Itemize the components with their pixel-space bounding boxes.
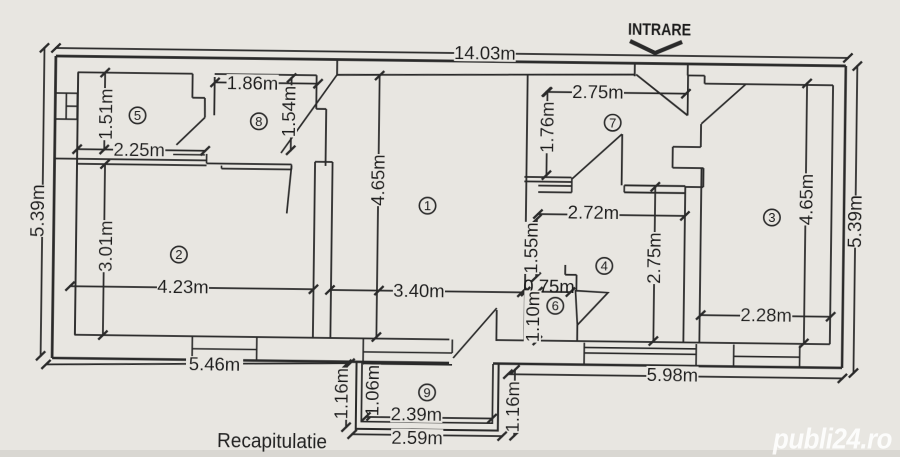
room 5 right step (191, 74, 193, 98)
dimension 3.01m (room 2) (103, 163, 105, 336)
outer wall top (56, 56, 846, 66)
dimension 4.65m (room 3) (804, 82, 807, 344)
room 5 door leaf (176, 117, 205, 145)
top wall inner face right of entrance (688, 74, 705, 76)
door room7-room4 leaf (572, 133, 622, 179)
svg-text:4.65m: 4.65m (796, 174, 818, 226)
dimension 2.39m (room 9) (365, 417, 493, 419)
svg-text:4.23m: 4.23m (157, 276, 209, 298)
room label 3 (circled) (764, 209, 781, 226)
svg-text:3.01m: 3.01m (95, 220, 117, 272)
bottom wall inner face (74, 335, 449, 340)
dimension 0.75m (room 6) (525, 291, 572, 294)
wall between rooms 1 and 2 (313, 162, 315, 338)
svg-text:1.76m: 1.76m (536, 101, 558, 153)
entrance right jamb (687, 64, 689, 75)
room label 6 (circled) (547, 297, 564, 314)
room 3 top wall inner face (705, 84, 833, 86)
svg-text:INTRARE: INTRARE (628, 20, 691, 40)
room 8 right wall with step (315, 75, 317, 109)
dimension 2.72m (room 4) (537, 214, 686, 216)
svg-text:1.86m: 1.86m (227, 72, 279, 94)
svg-text:2.59m: 2.59m (391, 427, 443, 449)
dimension 3.40m (room 1) (329, 290, 523, 292)
svg-text:1.51m: 1.51m (95, 88, 117, 140)
wall junction rooms 7/4/3 (700, 124, 702, 147)
room 1 door leaf (from hall) (281, 74, 337, 154)
svg-text:publi24.ro: publi24.ro (772, 424, 892, 456)
svg-text:1.16m: 1.16m (502, 381, 524, 433)
svg-text:9: 9 (423, 385, 430, 400)
shaft box on left wall (55, 93, 77, 119)
svg-text:14.03m: 14.03m (454, 42, 516, 64)
hall band upper (wall under room 5) (55, 158, 207, 160)
top wall step at x=337 (336, 61, 338, 75)
entrance arrow (V) (630, 41, 682, 53)
svg-text:1.06m: 1.06m (362, 365, 384, 417)
svg-text:2.28m: 2.28m (740, 304, 792, 326)
room 7 bottom stub wall (524, 176, 571, 179)
wall between room 1 and rooms 7/4/6 (524, 74, 527, 340)
room 3 right wall inner face (830, 85, 833, 344)
room label 1 (circled) (419, 197, 436, 214)
dimension 1.16m (room 9 right) (513, 369, 516, 437)
outer wall right (842, 66, 846, 368)
svg-text:8: 8 (255, 114, 262, 129)
entrance door leaf (636, 74, 689, 115)
room 4 top wall west part (538, 185, 571, 187)
hall band lower (wall under room 8) (207, 163, 292, 164)
svg-text:3.40m: 3.40m (393, 280, 445, 302)
svg-text:1.10m: 1.10m (522, 291, 544, 343)
wall between rooms 4 and 3 (683, 187, 685, 342)
dimension 1.51m (room 5) (103, 72, 106, 151)
dimension 5.39m (right) (853, 65, 857, 374)
svg-text:5.98m: 5.98m (647, 364, 699, 386)
room 5 top wall (78, 72, 193, 73)
svg-text:4.65m: 4.65m (367, 154, 389, 206)
svg-text:5.39m: 5.39m (28, 184, 50, 237)
dimension 1.86m (room 8) (214, 82, 319, 83)
dimension 1.76m (room 7) (546, 91, 547, 176)
svg-text:1.55m: 1.55m (520, 222, 542, 274)
svg-text:1.16m: 1.16m (331, 368, 353, 420)
door to room 9: jamb (495, 310, 497, 341)
svg-text:7: 7 (609, 115, 616, 130)
dimension 5.98m (bottom right) (507, 374, 843, 378)
outer wall left (52, 56, 56, 358)
svg-text:2.75m: 2.75m (643, 232, 665, 284)
window below room 4 (584, 347, 696, 348)
room 6 door jamb stub (576, 325, 578, 341)
svg-text:1.54m: 1.54m (278, 86, 300, 138)
svg-text:2.75m: 2.75m (572, 81, 624, 103)
svg-text:1: 1 (424, 198, 431, 213)
outer wall bottom (door gap for room 9) (52, 358, 449, 363)
room 4 top wall east part (624, 184, 685, 187)
dimension 5.39m (left) (41, 47, 45, 357)
dimension 4.65m (room 1) (376, 75, 379, 338)
room 9 outer wall (356, 362, 499, 430)
svg-text:4: 4 (601, 258, 608, 273)
dimension 2.75m (room 7) (545, 92, 686, 94)
dimension 1.06m (room 9) (370, 366, 373, 417)
room 2 door leaf (287, 166, 292, 214)
dimension 5.46m (bottom left) (46, 359, 350, 368)
dimension 1.54m (room 8) (290, 77, 293, 151)
room 6 right wall with step (564, 265, 566, 275)
svg-text:5.39m: 5.39m (845, 195, 867, 248)
svg-text:2.39m: 2.39m (391, 403, 443, 425)
left interior wall face (75, 72, 78, 334)
door room7-room4 jamb (621, 134, 624, 185)
window below room 3 (733, 345, 735, 368)
window below room 1 (363, 352, 452, 353)
dimension 2.75m (room 4 right) (653, 186, 655, 342)
dimension 1.10m (room 6) (536, 291, 539, 342)
entrance door stub (687, 75, 690, 115)
entrance left jamb (634, 63, 636, 76)
room 8 left wall (213, 77, 215, 115)
room label 5 (circled) (129, 107, 146, 124)
dimension 4.23m (room 2) (69, 286, 314, 289)
dimension 1.55m (room 4) (535, 218, 538, 278)
svg-text:2: 2 (175, 247, 182, 262)
top wall inner face (rooms 1/7) (337, 71, 635, 79)
svg-text:Recapitulatie: Recapitulatie (217, 430, 327, 453)
dimension 1.16m (room 9 left) (345, 363, 348, 428)
room label 8 (circled) (251, 113, 268, 130)
room label 2 (circled) (171, 246, 188, 263)
svg-text:5.46m: 5.46m (189, 353, 241, 375)
room label 9 (circled) (419, 384, 436, 401)
svg-text:6: 6 (552, 298, 559, 313)
room 3 door leaf (701, 84, 745, 125)
svg-text:2.72m: 2.72m (568, 202, 620, 224)
room label 4 (circled) (596, 258, 613, 275)
door to room 9: leaf (453, 308, 497, 359)
svg-text:2.25m: 2.25m (113, 139, 165, 161)
dimension 2.28m (room 3) (700, 315, 832, 317)
room 6 door leaf (triangle) (575, 291, 608, 326)
dimension 14.03m (top) (55, 48, 849, 58)
window below room 2 (191, 336, 193, 359)
room label 7 (circled) (604, 114, 621, 131)
room 5 door threshold (173, 153, 205, 155)
dimension 2.25m (room 5) (76, 149, 206, 151)
dimension 2.59m (room 9 outer) (351, 434, 503, 436)
step in top wall at room 3 (704, 76, 706, 84)
room 9 inner wall (361, 362, 493, 423)
room 8 top wall (215, 74, 317, 75)
svg-text:3: 3 (768, 210, 775, 225)
svg-text:5: 5 (134, 108, 141, 123)
